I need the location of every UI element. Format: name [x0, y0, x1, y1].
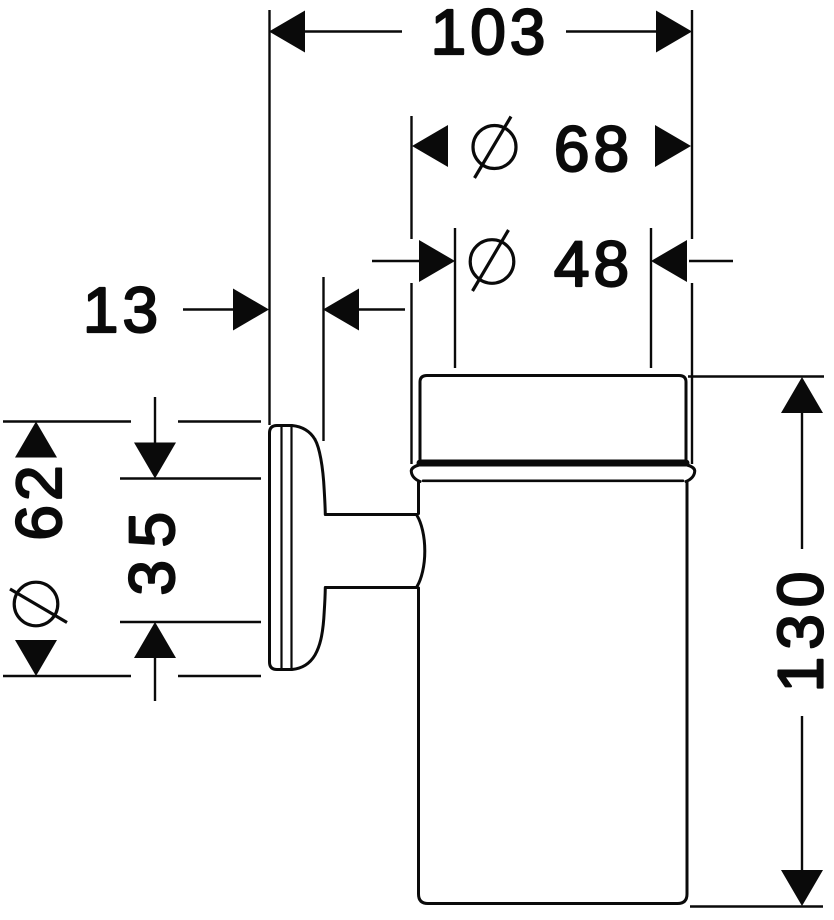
svg-text:48: 48: [554, 228, 633, 300]
svg-text:130: 130: [765, 565, 834, 693]
svg-text:35: 35: [116, 499, 188, 595]
svg-text:68: 68: [554, 113, 633, 185]
svg-text:103: 103: [431, 0, 550, 68]
svg-text:62: 62: [3, 461, 75, 540]
svg-text:13: 13: [83, 274, 162, 346]
